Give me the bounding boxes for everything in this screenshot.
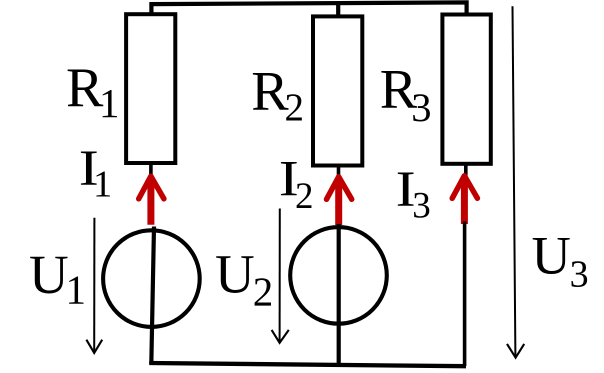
wire through source U1 down to bottom bus [151,227,154,365]
source U2 circle [290,227,387,324]
wire from R1 pin 2 down to I1 arrow tip [149,163,153,177]
resistor R3 [442,15,490,164]
voltage arrow U2 [272,209,289,343]
wire bottom bus [149,363,466,366]
svg-text:3: 3 [411,85,431,130]
label U1 [29,244,86,313]
svg-text:1: 1 [99,80,120,126]
wire stub from top bus down to R2 pin 1 [336,3,340,18]
label U3 [532,225,589,296]
resistor R1 [126,14,175,163]
voltage arrow U1 [86,218,102,353]
source U1 circle [103,230,200,327]
svg-text:1: 1 [66,267,87,313]
svg-text:R: R [251,61,289,123]
wire from R2 pin 2 down to I2 arrow tip [337,165,341,178]
resistor R2 [313,16,362,165]
label I2 [279,151,314,217]
svg-text:U: U [532,225,571,286]
wire from R3 pin 2 down to I3 arrow tip [464,164,468,178]
label R3 [380,59,432,130]
label U2 [215,243,273,314]
svg-text:U: U [29,244,69,305]
voltage arrow U3 [507,6,524,358]
svg-text:1: 1 [93,164,112,206]
label I3 [396,161,431,226]
svg-text:2: 2 [295,176,314,217]
svg-text:2: 2 [253,268,273,314]
wire from I3 arrow tail down to bottom bus [463,222,467,367]
label R1 [66,57,120,126]
svg-text:3: 3 [570,253,589,295]
label I1 [79,140,113,206]
svg-text:2: 2 [285,86,305,129]
svg-text:3: 3 [412,185,431,226]
svg-text:U: U [215,243,255,304]
current arrow I2 [327,177,352,225]
wire top bus from node above R1 to node above R3 [151,2,466,16]
current arrow I1 [139,176,164,225]
current arrow I3 [452,176,477,224]
label R2 [251,61,304,129]
wire through source U2 down to bottom bus [337,224,341,366]
